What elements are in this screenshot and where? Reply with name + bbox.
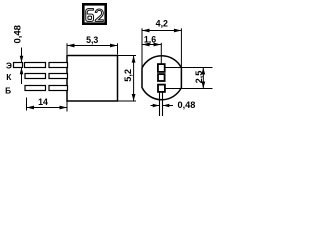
svg-text:4,2: 4,2 [156,19,168,29]
lead square 2 (middle) [158,74,165,81]
svg-text:5,3: 5,3 [86,35,98,45]
dimension 0,48 bottom lead width [151,105,174,107]
svg-text:14: 14 [38,97,48,107]
svg-text:0,48: 0,48 [13,25,24,43]
dimension 5,3 body width [67,43,118,54]
pin-numbering box 62 [83,4,105,23]
dimension 14 lead length [27,98,68,112]
body outline (side view) [67,56,118,102]
package outline top view: circle with two flats [142,56,181,100]
extension line from square 3 right [165,88,213,90]
svg-text:2,5: 2,5 [194,71,204,84]
lead square 3 (bottom) [158,85,165,92]
extension line from square 1 right [165,67,213,69]
lead К (collector) [25,74,68,79]
dimension 4,2 across flats [142,28,181,68]
svg-text:5,2: 5,2 [123,69,133,82]
dimension 2,5 outer lead span [202,68,204,89]
bottom lead tab (twin lines) [159,92,161,116]
extension line into square 1 [160,43,162,65]
lead Б (base) [25,86,68,91]
dimension 0,48 lead thickness (side view) [21,48,23,85]
dimension 1,6 flat to lead row [142,44,161,46]
svg-text:Э: Э [6,60,12,70]
svg-text:0,48: 0,48 [178,100,196,110]
lead Э (emitter) [14,63,68,68]
svg-text:Б: Б [5,85,11,95]
svg-text:1,6: 1,6 [144,35,156,45]
dimension 5,2 body height [118,56,136,102]
lead square 1 (top) [158,64,165,72]
